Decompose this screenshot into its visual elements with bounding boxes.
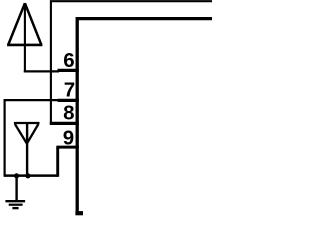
svg-text:8: 8 [63, 102, 74, 125]
svg-text:9: 9 [63, 127, 74, 150]
svg-text:6: 6 [63, 49, 74, 72]
svg-text:7: 7 [64, 79, 75, 102]
